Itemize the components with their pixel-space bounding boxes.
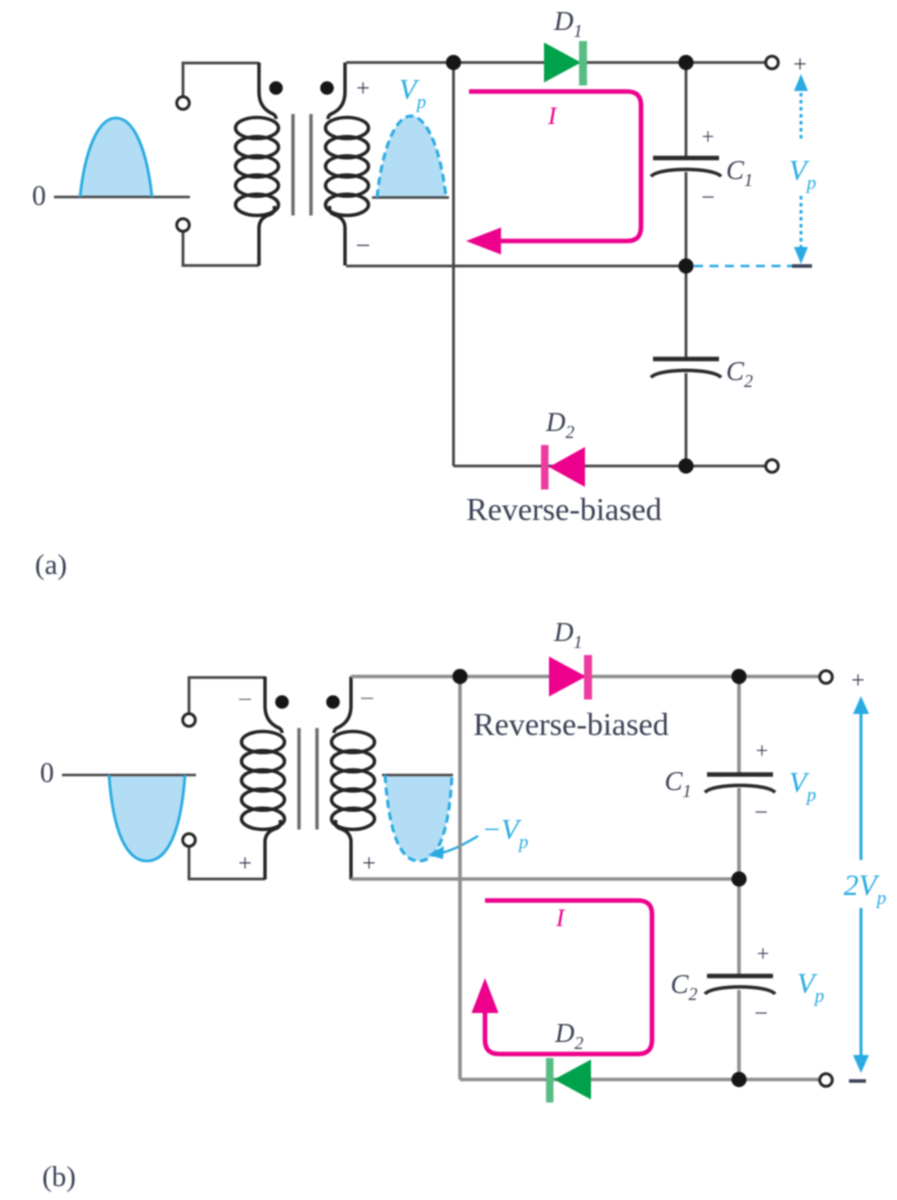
svg-text:(b): (b) — [42, 1161, 76, 1193]
wire source bottom to transformer (b) — [189, 846, 265, 879]
svg-text:Vp: Vp — [789, 767, 816, 806]
wire right branch middle (a) — [685, 172, 688, 360]
wire source top to transformer (b) — [189, 678, 265, 715]
label - reference (a) — [792, 264, 812, 267]
svg-text:Reverse-biased: Reverse-biased — [466, 491, 661, 527]
svg-text:+: + — [793, 52, 807, 78]
output terminal - (a) — [766, 460, 779, 473]
capacitor C2 (b) — [705, 976, 775, 994]
source terminal top (a) — [177, 97, 190, 110]
node secondary top (a) — [446, 55, 461, 70]
svg-text:I: I — [555, 905, 566, 932]
secondary waveform outline (b) — [385, 775, 452, 861]
node C1 top (b) — [731, 669, 746, 684]
svg-text:2Vp: 2Vp — [844, 869, 887, 909]
svg-text:C2: C2 — [670, 969, 697, 1004]
current loop I (b) — [472, 901, 653, 1055]
svg-text:I: I — [547, 103, 558, 130]
svg-text:−: − — [360, 684, 375, 713]
capacitor C2 (a) — [651, 359, 721, 378]
secondary waveform Vp hump (a) — [377, 116, 446, 198]
svg-text:−: − — [754, 800, 768, 826]
svg-text:+: + — [356, 76, 370, 102]
wire source bottom to transformer (a) — [183, 231, 259, 266]
source terminal bottom (a) — [177, 219, 190, 232]
svg-text:−: − — [701, 185, 715, 211]
2Vp measure arrow (b) — [853, 696, 869, 1073]
secondary waveform baseline (b) — [382, 774, 453, 776]
wire right branch middle (b) — [737, 788, 741, 977]
diode D2 (a) reverse biased — [541, 445, 585, 490]
svg-text:+: + — [702, 124, 714, 149]
secondary waveform -Vp dip (b) — [385, 775, 452, 861]
output terminal - (b) — [820, 1074, 833, 1087]
svg-text:(a): (a) — [35, 549, 67, 581]
svg-text:Vp: Vp — [797, 968, 824, 1007]
diode D1 (a) forward biased — [544, 41, 587, 86]
source terminal top (b) — [183, 714, 196, 727]
label - output (b) — [849, 1079, 866, 1082]
wire right branch upper (a) — [685, 63, 688, 158]
svg-text:−Vp: −Vp — [482, 814, 529, 853]
svg-text:Reverse-biased: Reverse-biased — [473, 706, 668, 742]
input waveform positive half-cycle (a) — [80, 118, 152, 197]
svg-text:C1: C1 — [664, 766, 691, 801]
node C1 top (a) — [678, 55, 693, 70]
secondary waveform baseline (a) — [372, 196, 449, 198]
svg-text:+: + — [757, 941, 769, 966]
svg-text:+: + — [851, 668, 865, 694]
output terminal + (a) — [766, 56, 779, 69]
svg-text:C1: C1 — [726, 155, 753, 190]
wire bottom rail D2 (a) — [454, 465, 767, 468]
svg-text:0: 0 — [40, 758, 54, 789]
diode D2 (b) forward biased — [546, 1058, 591, 1103]
svg-text:−: − — [238, 685, 253, 714]
svg-text:D1: D1 — [553, 617, 583, 652]
wire left vertical (b) — [458, 677, 462, 1080]
input source baseline (a) — [54, 196, 190, 199]
wire left vertical (a) — [452, 63, 455, 467]
diode D1 (b) reverse biased — [549, 655, 592, 700]
wire secondary bottom rail (a) — [346, 265, 686, 268]
wire right branch lower (b) — [737, 990, 741, 1080]
source terminal bottom (b) — [183, 834, 196, 847]
svg-text:−: − — [356, 231, 371, 260]
wire secondary mid rail (b) — [351, 877, 739, 881]
transformer T1 (b) — [242, 677, 375, 880]
wire top rail (a) — [346, 61, 766, 64]
input source baseline (b) — [62, 774, 196, 777]
svg-text:+: + — [238, 851, 252, 877]
svg-text:D1: D1 — [553, 6, 583, 41]
node C1-C2 midpoint (a) — [678, 258, 693, 273]
wire top rail (b) — [351, 675, 820, 679]
svg-text:D2: D2 — [545, 407, 575, 442]
wire right branch lower (a) — [685, 373, 688, 466]
svg-text:D2: D2 — [554, 1018, 584, 1053]
node secondary top (b) — [452, 669, 467, 684]
Vp measure arrow (a) — [794, 74, 808, 264]
arrow -Vp pointer (b) — [428, 836, 478, 859]
output terminal + (b) — [820, 671, 833, 684]
wire bottom rail D2 (b) — [460, 1078, 820, 1082]
input waveform outline (b) — [109, 775, 185, 861]
input waveform outline (a) — [80, 118, 152, 197]
svg-text:Vp: Vp — [399, 74, 426, 113]
wire right branch upper (b) — [737, 677, 741, 774]
secondary waveform outline (a) — [377, 116, 446, 198]
svg-text:+: + — [756, 738, 768, 763]
transformer T1 (a) — [236, 63, 369, 266]
svg-text:+: + — [362, 851, 376, 877]
dashed reference line (a) — [694, 265, 813, 268]
node C2 bottom (b) — [731, 1072, 746, 1087]
wire source top to transformer (a) — [183, 63, 259, 97]
capacitor C1 (b) — [705, 775, 775, 793]
current loop I (a) — [466, 92, 641, 255]
svg-text:0: 0 — [32, 181, 46, 212]
node C1-C2 midpoint (b) — [731, 871, 746, 886]
capacitor C1 (a) — [651, 158, 721, 177]
svg-text:−: − — [754, 1001, 768, 1027]
input waveform negative half-cycle (b) — [109, 775, 185, 861]
node C2 bottom (a) — [678, 458, 693, 473]
svg-text:C2: C2 — [726, 356, 753, 391]
svg-text:Vp: Vp — [789, 155, 816, 194]
